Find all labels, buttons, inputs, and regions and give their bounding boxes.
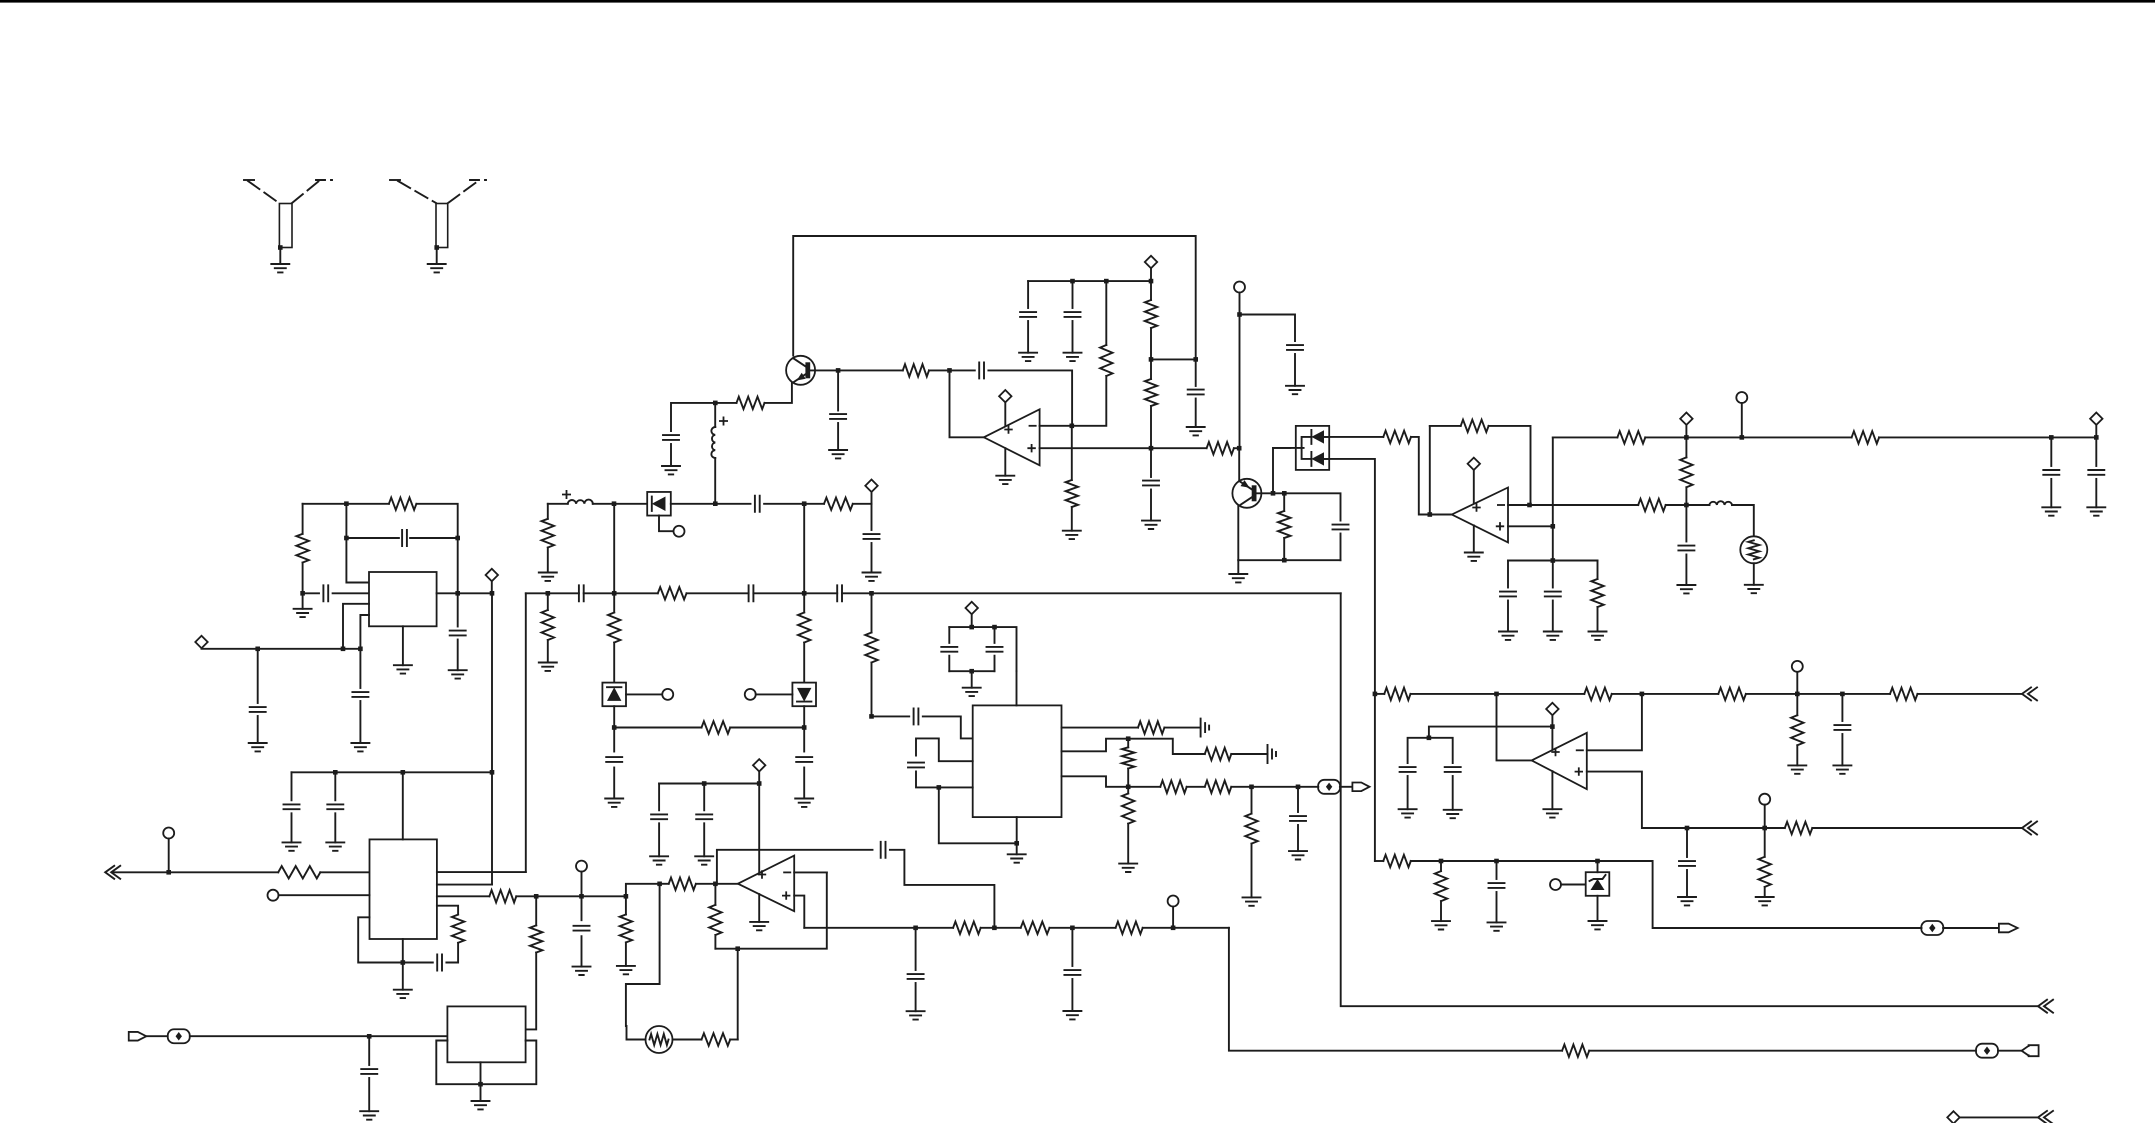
- wire y861 c: [1497, 860, 1598, 862]
- resistor R40: [953, 922, 981, 934]
- node rail C5: [1070, 279, 1075, 284]
- wire R30-R31: [1187, 786, 1205, 788]
- resistor R44: [702, 1033, 731, 1045]
- wire U2 right pin: [437, 592, 492, 594]
- wire det link: [715, 503, 750, 505]
- resistor R14: [1617, 431, 1645, 443]
- connector OUT1 arrow: [1352, 783, 1369, 792]
- wire FB4-arrow: [1943, 927, 1999, 929]
- node U8 sup: [1550, 724, 1555, 729]
- wire U8b gnd stem: [480, 1084, 482, 1101]
- resistor R12: [1680, 457, 1692, 487]
- resistor R23: [702, 721, 731, 733]
- page connector chevron in: [105, 866, 120, 879]
- wire R48 to ground: [1796, 745, 1798, 765]
- node V1 join: [490, 770, 495, 775]
- op-amp U8: [1532, 733, 1587, 789]
- wire R18 to ground: [547, 640, 549, 663]
- node C16 right: [455, 536, 460, 541]
- wire C10 to ground: [1685, 555, 1687, 586]
- node y694 C39: [1840, 692, 1845, 697]
- wire C3 to corner: [988, 370, 1072, 425]
- wire U6 gnd stem: [402, 963, 404, 990]
- node cp top right: [992, 625, 997, 630]
- capacitor C7: [1143, 481, 1159, 486]
- terminal T9: [1168, 896, 1179, 907]
- page connector chevron y828: [2022, 822, 2037, 835]
- wire therm loop: [626, 884, 660, 1026]
- wire C44 drop: [581, 896, 583, 920]
- connector supply diamond D+: [1145, 256, 1157, 268]
- resistor R26: [1138, 721, 1164, 733]
- node sup cap2: [702, 781, 707, 786]
- transistor Q1: [786, 356, 815, 385]
- wire C29 to ground: [1297, 825, 1299, 851]
- resistor R27: [1205, 748, 1232, 760]
- node collector join: [1193, 357, 1198, 362]
- wire U2 pin A: [343, 604, 369, 649]
- wire C32 left: [403, 962, 433, 964]
- resistor R16 (U2 fb): [389, 498, 417, 510]
- wire U2 diamond stem: [491, 581, 493, 593]
- wire T1 down: [1239, 293, 1241, 315]
- node in2 cap: [367, 1034, 372, 1039]
- wire C14 to ground: [2095, 479, 2097, 507]
- capacitor C38: [361, 1069, 377, 1074]
- wire branch to C8: [1240, 315, 1296, 342]
- connector diamond U7 supply: [753, 759, 765, 771]
- wire U8 output: [1497, 694, 1532, 761]
- node rail mix2: [802, 591, 807, 596]
- ground C44: [573, 967, 591, 975]
- resistor R11: [1638, 499, 1666, 511]
- wire U8 caps r: [1429, 738, 1453, 763]
- ground C31: [326, 842, 344, 850]
- ground C36: [907, 1011, 925, 1019]
- resistor R28: [1122, 747, 1134, 768]
- ground C5: [1064, 353, 1082, 361]
- node rail R3: [1104, 279, 1109, 284]
- capacitor C18: [250, 707, 266, 712]
- capacitor C13: [2043, 470, 2059, 475]
- wire audio to R30: [1128, 786, 1160, 788]
- wire node to D2: [614, 503, 647, 505]
- ground C1: [662, 466, 680, 474]
- wire R32 top: [1251, 787, 1253, 814]
- wire D3 to R23: [614, 727, 701, 729]
- wire R50 to ground: [1764, 887, 1766, 897]
- wire C37 drop: [1071, 928, 1073, 966]
- node p2 r: [1126, 736, 1131, 741]
- wire RT2 right: [673, 1039, 702, 1041]
- terminal T3: [674, 526, 685, 537]
- wire p2 ext: [1128, 739, 1205, 754]
- capacitor C31: [327, 804, 343, 809]
- connector IN arrow: [2022, 1045, 2039, 1056]
- wire FB3 to U7b: [190, 1035, 448, 1037]
- wire R17 down: [302, 563, 304, 594]
- wire node to L2: [1686, 504, 1709, 506]
- wire U3 plus: [1508, 525, 1553, 527]
- wire node to vertical: [1151, 358, 1196, 360]
- wire C30 drop: [291, 772, 293, 800]
- ground ANT1: [271, 264, 289, 272]
- wire cp gnd stem: [971, 671, 973, 688]
- node L1 bottom: [713, 501, 718, 506]
- wire T6 stem: [168, 839, 170, 873]
- capacitor C16: [402, 530, 407, 546]
- wire Q2 base: [1257, 492, 1274, 494]
- wire U5 in cap: [872, 715, 910, 717]
- wire FB2-arrow: [1998, 1050, 2022, 1052]
- wire plus rail to R7: [1151, 447, 1207, 449]
- capacitor C4: [1020, 312, 1036, 317]
- resistor R1 (Q1 emitter): [737, 397, 765, 409]
- node y861 R53: [1439, 859, 1444, 864]
- capacitor C46: [796, 757, 812, 762]
- wire R31 to node: [1231, 786, 1251, 788]
- resistor R51: [1785, 822, 1813, 834]
- wire C31 to ground: [334, 813, 336, 842]
- resistor R21: [824, 498, 853, 510]
- wire U1 minus input: [1040, 425, 1072, 427]
- wire y437 from riser: [1552, 437, 1554, 526]
- wire C13 drop: [2050, 437, 2052, 466]
- wire D2 out: [671, 503, 715, 505]
- wire node to L1: [714, 403, 716, 427]
- wire y694 rail: [1375, 693, 1384, 695]
- wire y861 start: [1375, 860, 1383, 862]
- wire R20 to ground: [547, 548, 549, 573]
- node U8b gnd: [478, 1082, 483, 1087]
- wire cp right drop: [994, 627, 996, 643]
- wire U2 fb right: [457, 538, 459, 593]
- capacitor C1: [663, 435, 679, 440]
- ground U8: [1543, 809, 1561, 817]
- wire C37 to ground: [1071, 979, 1073, 1011]
- antenna ANT1: [244, 180, 332, 248]
- diode D2: [647, 492, 671, 516]
- connector diamond rail2: [1680, 413, 1692, 425]
- capacitor C17: [450, 631, 466, 636]
- op-amp U7: [738, 856, 794, 912]
- wire R12 to rail: [1685, 437, 1687, 457]
- wire D2 tap: [659, 516, 674, 532]
- wire C14 drop: [2095, 437, 2097, 466]
- wire al mid3: [1143, 927, 1229, 929]
- node al4: [1171, 926, 1176, 931]
- node T8: [579, 894, 584, 899]
- node U6 gnd: [401, 960, 406, 965]
- node sup1: [333, 770, 338, 775]
- wire R1 to node: [715, 402, 736, 404]
- capacitor C11: [1500, 592, 1516, 597]
- wire C28 down: [916, 772, 939, 788]
- resistor R15: [1852, 431, 1880, 443]
- connector U2 out diamond: [486, 569, 498, 581]
- wire C19 drop: [359, 649, 361, 688]
- ground C38: [360, 1111, 378, 1120]
- wire rail to T2: [1686, 436, 1741, 438]
- wire C19 to ground: [359, 701, 361, 743]
- wire therm drive: [737, 949, 739, 1040]
- wire R35 down: [446, 943, 458, 963]
- wire C18 drop: [257, 649, 259, 703]
- capacitor C27: [987, 647, 1003, 652]
- page connector chevron aux: [2038, 1111, 2053, 1123]
- wire R4 to node: [1150, 328, 1152, 359]
- wire y694 end: [1918, 693, 2023, 695]
- IC U6: [370, 839, 437, 939]
- wire R8 bottom: [1283, 538, 1285, 560]
- connector ferrite FB4: [1921, 921, 1943, 935]
- terminal T2: [1736, 392, 1747, 403]
- capacitor C26: [941, 647, 957, 652]
- wire C43 drop: [1496, 861, 1498, 879]
- wire C33 to ground: [658, 823, 660, 856]
- capacitor C37: [1064, 970, 1080, 975]
- inductor L1: [711, 427, 715, 458]
- connector OUT2 arrow: [1999, 924, 2018, 933]
- wire D4 down: [803, 706, 805, 727]
- wire C6 to ground: [1195, 399, 1197, 428]
- capacitor C5: [1065, 312, 1081, 317]
- inductor L3: [568, 500, 593, 504]
- wire Q2 emitter: [1237, 506, 1239, 560]
- wire C8 to sground: [1294, 354, 1296, 386]
- wire R38 to ground: [625, 942, 627, 966]
- wire diamond det stem: [871, 492, 873, 504]
- node U7amp in: [713, 882, 718, 887]
- wire U6 out ext: [536, 895, 581, 897]
- wire main rail seg5: [842, 592, 1341, 594]
- node cp bottom: [969, 669, 974, 674]
- node Q1 base: [836, 368, 841, 373]
- wire R34 to node: [516, 895, 536, 897]
- terminal T11: [1759, 794, 1770, 805]
- wire R23 to node: [730, 727, 804, 729]
- terminal T5: [745, 689, 756, 700]
- wire emitter gnd stem: [1237, 560, 1239, 574]
- wire R29 to ground: [1127, 824, 1129, 864]
- node D3 out: [612, 725, 617, 730]
- wire U7 plus: [794, 896, 804, 928]
- wire U6 bottom pin: [402, 939, 404, 963]
- node audio c: [1296, 785, 1301, 790]
- connector diamond det: [865, 480, 877, 492]
- wire C16 right: [410, 537, 458, 539]
- wire U5 pinB: [916, 738, 973, 761]
- wire C41 to ground: [1452, 776, 1454, 810]
- node vol: [624, 894, 629, 899]
- node rail mix1: [612, 591, 617, 596]
- capacitor C30: [284, 804, 300, 809]
- ground U5: [1008, 854, 1026, 862]
- ground C24: [863, 573, 881, 581]
- wire y560 rail: [1508, 560, 1598, 562]
- resistor R47: [1718, 688, 1746, 700]
- wire U5 gnd stem: [1016, 843, 1018, 854]
- wire C36 drop: [915, 928, 917, 970]
- resistor R33: [278, 866, 320, 878]
- antenna ANT2: [390, 180, 486, 248]
- node U5 pinC: [937, 785, 942, 790]
- wire L3 left: [548, 503, 568, 505]
- node xtal a: [255, 647, 260, 652]
- inductor L2: [1709, 501, 1732, 505]
- resistor R34: [489, 890, 516, 902]
- node rail T2: [1740, 435, 1745, 440]
- wire U7 fb loop: [715, 872, 826, 948]
- node audio a: [1126, 785, 1131, 790]
- ground C12: [1544, 632, 1562, 640]
- wire D1 top out: [1324, 436, 1383, 438]
- wire U2 bottom stem: [402, 626, 404, 665]
- wire C24 to ground: [871, 543, 873, 573]
- wire L1 down: [714, 458, 716, 505]
- resistor R46: [1584, 688, 1612, 700]
- wire R18 drop: [547, 593, 549, 610]
- node U2 out b: [490, 591, 495, 596]
- capacitor C40: [1400, 767, 1416, 772]
- node cp top: [969, 625, 974, 630]
- ground R53: [1432, 921, 1450, 929]
- wire audio to oval: [1298, 786, 1318, 788]
- wire U3 gnd stem: [1473, 525, 1475, 552]
- capacitor C10: [1678, 546, 1694, 551]
- ground C14: [2087, 507, 2105, 515]
- node rail diamond: [1149, 279, 1154, 284]
- resistor R4: [1145, 300, 1157, 328]
- capacitor C6: [1188, 390, 1204, 395]
- node al2: [992, 926, 997, 931]
- capacitor C9 (Q2): [1333, 525, 1349, 530]
- wire cp bottom: [949, 670, 994, 672]
- wire R37 to U7amp: [696, 883, 716, 885]
- node C15: [300, 591, 305, 596]
- node U3 minus: [1527, 503, 1532, 508]
- wire base to R2: [838, 369, 903, 371]
- node xtal b: [341, 647, 346, 652]
- node U2 out a: [455, 591, 460, 596]
- wire C4 to ground: [1027, 321, 1029, 353]
- wire Q1 collector loop: [793, 236, 1195, 357]
- capacitor C43: [1489, 883, 1505, 888]
- wire R10 to corner: [1489, 426, 1531, 505]
- ground C17: [449, 670, 467, 678]
- wire U6 bracket: [358, 917, 403, 962]
- page connector chevron bus: [2038, 1000, 2053, 1013]
- resistor R3: [1100, 345, 1112, 376]
- wire C46 to ground: [803, 768, 805, 799]
- wire C46 drop: [803, 728, 805, 752]
- capacitor C39: [1834, 725, 1850, 730]
- capacitor C19: [352, 692, 368, 697]
- resistor R5: [1145, 379, 1157, 406]
- wire vol up: [626, 884, 660, 897]
- node U1 plus: [1149, 446, 1154, 451]
- node Q2 base diode: [1271, 491, 1276, 496]
- wire U6 supply: [292, 771, 493, 773]
- capacitor C45: [606, 757, 622, 762]
- node y560: [1551, 558, 1556, 563]
- wire T8 stem: [581, 872, 583, 897]
- wire node up to R12: [1685, 487, 1687, 505]
- wire C39 drop: [1841, 694, 1843, 721]
- wire C42 drop: [1686, 828, 1688, 857]
- connector ferrite FB1: [1318, 780, 1340, 794]
- wire mix3 down: [871, 593, 873, 632]
- wire C42 to ground: [1686, 870, 1688, 897]
- wire U3 output: [1430, 514, 1452, 516]
- ground C29: [1289, 851, 1307, 859]
- ground C15 node: [294, 609, 312, 617]
- wire ANT1 to ground: [279, 248, 281, 265]
- wire C7 to ground: [1150, 490, 1152, 521]
- wire y694 b: [1612, 693, 1719, 695]
- wire C26 down: [948, 656, 950, 672]
- wire U3 feedback top: [1430, 425, 1461, 427]
- wire Q1 emitter: [765, 383, 792, 403]
- wire al mid2: [1050, 927, 1116, 929]
- wire Q2 base diode up: [1273, 448, 1290, 493]
- wire R28b top: [1127, 787, 1129, 794]
- node audio b: [1249, 785, 1254, 790]
- wire T10 stem: [1796, 672, 1798, 694]
- plus label L3: [562, 490, 571, 499]
- wire T7 to U6: [279, 894, 370, 896]
- capacitor C23: [755, 496, 760, 512]
- capacitor C32: [437, 955, 442, 971]
- resistor R37: [669, 878, 696, 890]
- wire audio ext: [1252, 786, 1299, 788]
- resistor R7: [1207, 442, 1234, 454]
- wire C2 to ground: [837, 423, 839, 450]
- wire y828 end: [1812, 827, 2022, 829]
- wire R36 to U7: [526, 953, 537, 1030]
- resistor R32: [1245, 814, 1257, 844]
- node y861 zener: [1595, 859, 1600, 864]
- wire node to C1: [671, 403, 715, 431]
- wire rail to R3: [1105, 281, 1107, 345]
- resistor R42: [1116, 922, 1143, 934]
- wire out ext2: [582, 895, 626, 897]
- wire al corner: [1229, 928, 1562, 1051]
- resistor R39 (U7 fb): [709, 905, 721, 935]
- wire fb mid to pin: [346, 538, 369, 583]
- wire minus node down: [1071, 426, 1073, 480]
- node antenna ANT1 feed: [278, 245, 283, 250]
- node y861 C43: [1494, 859, 1499, 864]
- terminal T6: [163, 828, 174, 839]
- ground cp: [963, 688, 981, 696]
- wire R5 to plus rail: [1150, 406, 1152, 448]
- node therm drive: [735, 946, 740, 951]
- node Q2 collector rail: [1237, 446, 1242, 451]
- wire y694 c: [1746, 693, 1890, 695]
- wire C11 to ground: [1507, 601, 1509, 632]
- resistor R17: [296, 534, 308, 563]
- wire bus right vert: [1341, 593, 2038, 1006]
- wire U5 top pin: [1016, 671, 1018, 705]
- wire R21 to diamond: [853, 503, 872, 505]
- wire R32 to ground: [1251, 844, 1253, 898]
- node T1 branch: [1237, 312, 1242, 317]
- wire U7 diamond stem: [758, 772, 760, 784]
- wire C33 drop: [658, 784, 660, 811]
- IC U8b: [447, 1006, 525, 1062]
- IC U2: [369, 572, 437, 626]
